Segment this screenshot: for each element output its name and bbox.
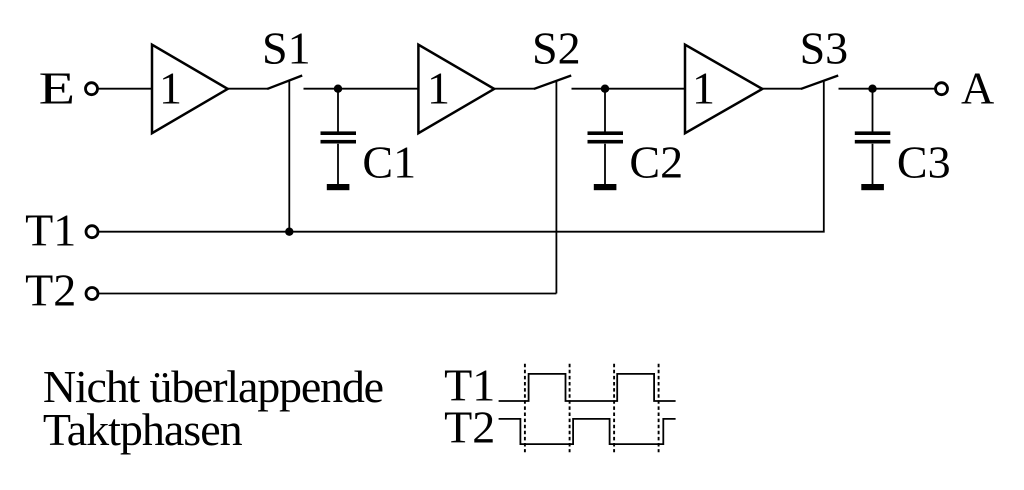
- terminal T1: [86, 226, 98, 238]
- terminal E: [86, 83, 98, 95]
- terminal T2: [86, 288, 98, 300]
- wire E to U1: [98, 88, 152, 90]
- wire T1 line to S3: [99, 80, 824, 232]
- timing waveform T1: [499, 374, 676, 401]
- switch S1 lever: [267, 76, 302, 89]
- wire S2 control to T2: [555, 80, 557, 294]
- svg-text:T1: T1: [25, 205, 76, 256]
- capacitor C3: [855, 89, 891, 184]
- wire S1 to U2: [304, 88, 419, 90]
- wire U2 to S2: [494, 88, 534, 90]
- capacitor C2: [588, 89, 624, 184]
- switch S3 lever: [801, 76, 838, 89]
- svg-text:S3: S3: [800, 23, 849, 74]
- dotted phase marker 2: [569, 364, 571, 453]
- ground under C2: [594, 184, 617, 190]
- svg-text:T2: T2: [25, 265, 76, 316]
- wire S1 control to T1: [288, 80, 290, 232]
- dotted phase marker 4: [658, 364, 660, 453]
- wire U1 to S1: [228, 88, 268, 90]
- timing waveform T2: [499, 419, 676, 444]
- ground under C1: [327, 184, 350, 190]
- svg-text:S2: S2: [532, 23, 581, 74]
- dotted phase marker 3: [613, 364, 615, 453]
- wire U3 to S3: [762, 88, 801, 90]
- svg-text:1: 1: [159, 63, 182, 114]
- op-amp U2 (buffer, gain 1): [418, 45, 494, 134]
- svg-text:Taktphasen: Taktphasen: [43, 404, 243, 455]
- svg-text:A: A: [961, 63, 994, 114]
- wire S2 to U3: [572, 88, 686, 90]
- op-amp U3 (buffer, gain 1): [685, 45, 762, 134]
- svg-text:1: 1: [427, 63, 450, 114]
- node junction T1 to S1: [285, 228, 293, 236]
- wire T2 line to S2: [99, 293, 557, 295]
- ground under C3: [861, 184, 884, 190]
- capacitor C1: [321, 89, 357, 184]
- wire S3 to A: [839, 88, 936, 90]
- node junction at C1: [334, 85, 342, 93]
- switch S2 lever: [534, 76, 571, 89]
- svg-text:S1: S1: [262, 23, 311, 74]
- svg-text:C3: C3: [897, 136, 951, 187]
- op-amp U1 (buffer, gain 1): [152, 45, 228, 134]
- dotted phase marker 1: [524, 364, 526, 453]
- svg-text:1: 1: [692, 63, 715, 114]
- terminal A: [936, 83, 948, 95]
- node junction at C3: [868, 85, 876, 93]
- node junction at C2: [601, 85, 609, 93]
- svg-text:T2: T2: [444, 401, 495, 452]
- svg-text:C1: C1: [362, 136, 416, 187]
- svg-text:E: E: [39, 63, 75, 114]
- svg-text:C2: C2: [629, 136, 683, 187]
